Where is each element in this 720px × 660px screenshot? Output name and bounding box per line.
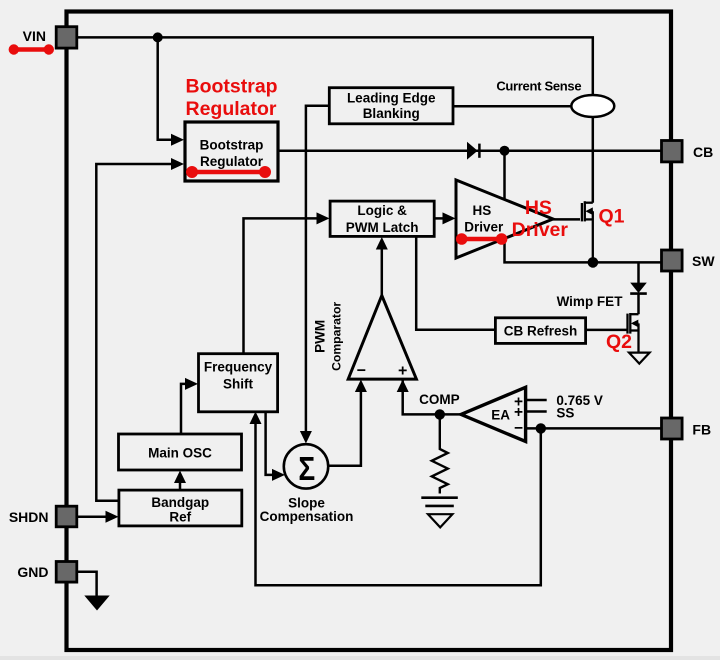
svg-text:−: − bbox=[357, 363, 366, 380]
op-amp EA error amplifier triangle bbox=[461, 387, 526, 441]
wire bandgap to main OSC bbox=[179, 481, 182, 490]
diode D1 on CB rail bbox=[467, 142, 478, 160]
svg-text:CB: CB bbox=[693, 144, 713, 160]
wire current sense ellipse to LEB input bbox=[453, 105, 571, 108]
pin CB bbox=[662, 141, 683, 162]
wire current sense line into Q1 drain bbox=[592, 117, 595, 203]
wire CB Refresh output to Q2 gate bbox=[586, 329, 628, 332]
block CB Refresh bbox=[495, 318, 585, 344]
op-amp PWM comparator triangle bbox=[348, 296, 416, 380]
svg-text:HS: HS bbox=[525, 197, 552, 219]
pin SW bbox=[662, 250, 683, 271]
wire Bandgap Ref to Bootstrap Regulator lower input bbox=[96, 164, 172, 501]
svg-text:Frequency: Frequency bbox=[204, 360, 273, 375]
svg-text:COMP: COMP bbox=[419, 392, 460, 407]
svg-text:+: + bbox=[514, 404, 523, 421]
node COMP bbox=[435, 409, 445, 419]
annotation red mark at VIN bbox=[14, 47, 49, 52]
wire PWM comparator output to latch bottom bbox=[381, 247, 384, 296]
svg-text:Σ: Σ bbox=[298, 451, 315, 488]
svg-text:HS: HS bbox=[473, 203, 492, 218]
svg-text:Wimp FET: Wimp FET bbox=[557, 294, 624, 309]
svg-text:Logic &: Logic & bbox=[357, 203, 407, 218]
svg-text:Ref: Ref bbox=[169, 510, 191, 525]
pin FB bbox=[662, 418, 683, 439]
wire latch bottom to CB Refresh input bbox=[416, 235, 495, 330]
svg-text:+: + bbox=[398, 363, 407, 380]
block Frequency Shift bbox=[199, 354, 278, 412]
svg-text:Driver: Driver bbox=[464, 219, 504, 234]
svg-text:Q1: Q1 bbox=[599, 206, 625, 228]
svg-text:FB: FB bbox=[692, 422, 711, 438]
svg-text:Comparator: Comparator bbox=[330, 302, 344, 371]
current sense ellipse bbox=[571, 95, 614, 117]
wire wimp FET branch from SW rail bbox=[637, 262, 640, 283]
svg-text:Leading Edge: Leading Edge bbox=[347, 91, 436, 106]
svg-text:VIN: VIN bbox=[23, 28, 46, 44]
svg-text:Bootstrap: Bootstrap bbox=[186, 75, 278, 97]
wire CB junction down to SW rail (passes behind HS driver) bbox=[505, 151, 593, 263]
block Logic & PWM Latch bbox=[330, 201, 434, 236]
node CB junction bbox=[500, 146, 510, 156]
resistor R (COMP network) bbox=[432, 414, 448, 493]
transistor Q2 bbox=[628, 313, 639, 353]
wire VIN rail top bbox=[78, 37, 593, 95]
block Bandgap Ref bbox=[119, 490, 242, 526]
summer slope compensation circle bbox=[284, 444, 328, 488]
pin GND bbox=[56, 562, 77, 583]
wire Bootstrap Regulator output to CB pin bbox=[278, 149, 661, 152]
wire GND pin to ground arrow bbox=[78, 572, 97, 596]
svg-text:Regulator: Regulator bbox=[200, 154, 264, 169]
svg-text:Main OSC: Main OSC bbox=[148, 445, 212, 460]
ground below capacitor (open triangle) bbox=[428, 514, 452, 527]
wire Leading Edge Blanking to slope summer bbox=[306, 106, 329, 437]
svg-text:CB Refresh: CB Refresh bbox=[504, 324, 578, 339]
svg-text:−: − bbox=[514, 420, 523, 437]
annotation red underline in bootstrap box bbox=[192, 170, 265, 175]
wire SW rail to SW pin bbox=[593, 261, 661, 264]
pin SHDN bbox=[56, 506, 77, 527]
svg-text:Bootstrap: Bootstrap bbox=[200, 138, 264, 153]
block Main OSC bbox=[119, 434, 242, 470]
svg-text:Driver: Driver bbox=[512, 219, 569, 241]
ground GND arrow (filled) bbox=[84, 596, 109, 611]
node FB junction bbox=[536, 423, 546, 433]
wire EA reference stubs bbox=[526, 399, 547, 402]
wire SHDN pin to bandgap bbox=[78, 515, 107, 518]
wire slope summer output to PWM comparator minus input bbox=[328, 391, 361, 466]
svg-text:Current Sense: Current Sense bbox=[496, 78, 581, 93]
node VIN junction bbox=[153, 32, 163, 42]
svg-text:Bandgap: Bandgap bbox=[151, 495, 209, 510]
op-amp HS driver triangle bbox=[456, 180, 553, 258]
svg-text:Regulator: Regulator bbox=[186, 98, 277, 120]
pin VIN bbox=[56, 27, 77, 48]
svg-text:Q2: Q2 bbox=[606, 331, 632, 353]
svg-text:PWM: PWM bbox=[313, 320, 328, 353]
svg-text:SW: SW bbox=[692, 253, 715, 269]
wire frequency shift bottom to slope summer left bbox=[266, 412, 273, 475]
annotation red underline in HS driver bbox=[462, 237, 502, 242]
svg-text:GND: GND bbox=[17, 564, 48, 580]
transistor Q1 bbox=[582, 201, 593, 262]
block Leading Edge Blanking bbox=[329, 88, 453, 124]
diode wimp FET catch diode bbox=[630, 283, 647, 293]
svg-text:Blanking: Blanking bbox=[363, 106, 420, 121]
wire FB feedback loop to frequency shift bbox=[256, 423, 541, 585]
wire Logic latch output to HS driver input bbox=[434, 217, 444, 220]
wire COMP node horizontals and PWM comp plus input bbox=[403, 379, 461, 414]
svg-text:PWM Latch: PWM Latch bbox=[346, 220, 419, 235]
node SW junction bbox=[588, 257, 599, 268]
wire frequency-shift top to Logic latch input bbox=[244, 218, 318, 353]
wire main OSC top to frequency shift input bbox=[181, 384, 186, 434]
block Bootstrap Regulator bbox=[185, 122, 278, 181]
wire EA minus to FB pin bbox=[526, 427, 661, 430]
svg-text:SHDN: SHDN bbox=[9, 509, 49, 525]
svg-text:EA: EA bbox=[491, 408, 510, 423]
ground below Q2 (open triangle) bbox=[629, 353, 650, 364]
svg-text:Shift: Shift bbox=[223, 377, 253, 392]
wire HS driver output to Q1 gate bbox=[553, 218, 580, 221]
wire VIN junction to Bootstrap Regulator upper input bbox=[158, 37, 172, 139]
svg-text:SS: SS bbox=[556, 405, 574, 420]
svg-text:Compensation: Compensation bbox=[260, 509, 354, 524]
capacitor C (COMP network) bbox=[421, 496, 458, 499]
